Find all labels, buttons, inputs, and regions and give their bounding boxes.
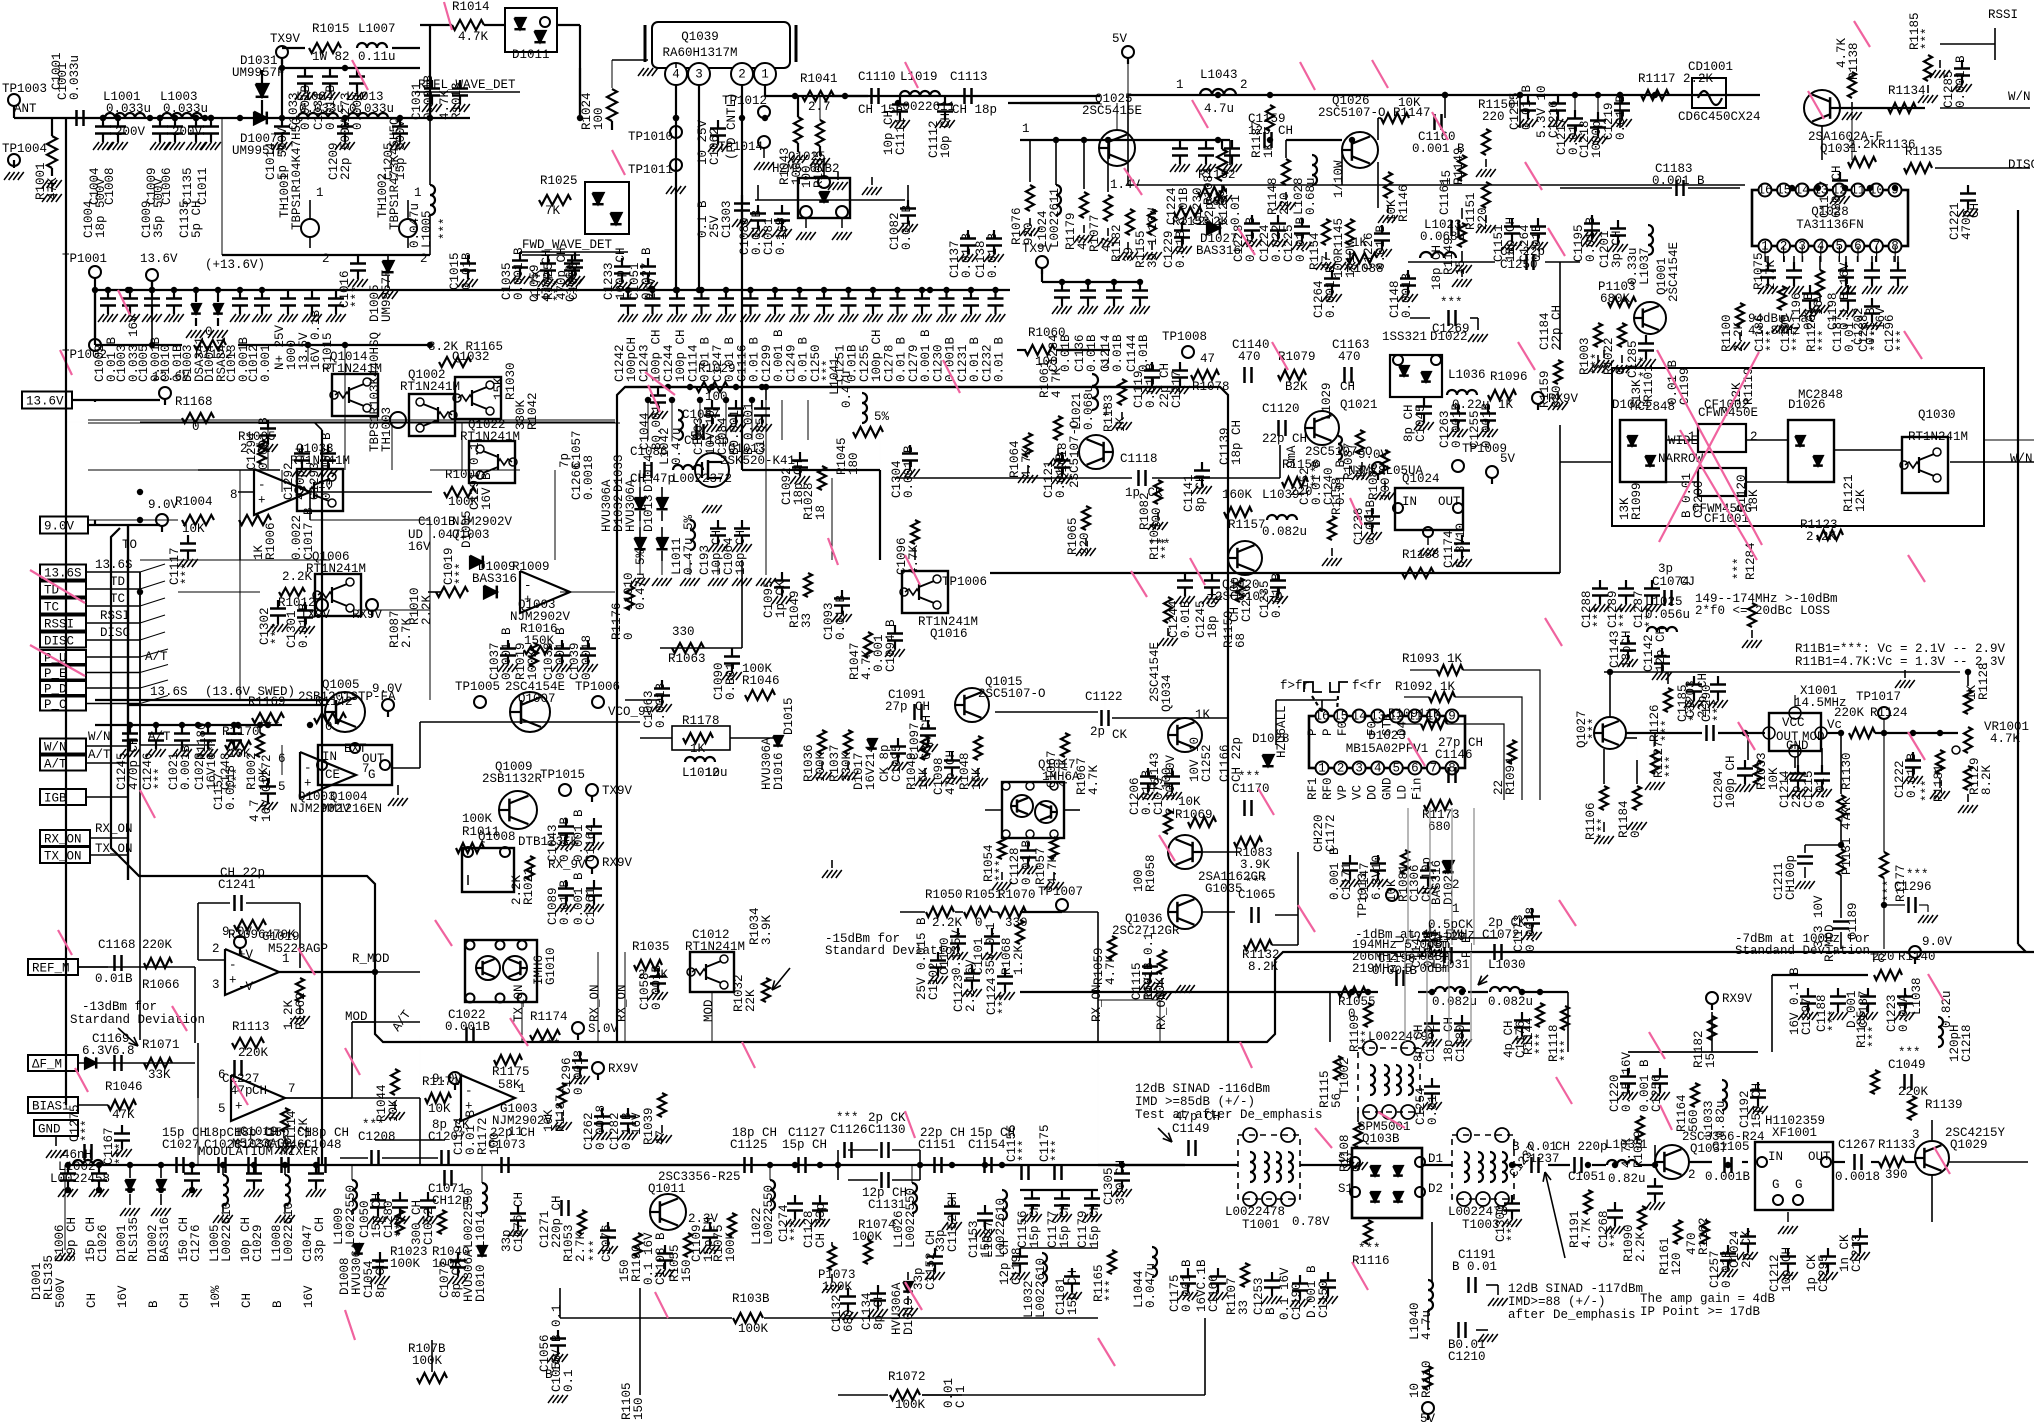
svg-text:220K: 220K — [142, 938, 173, 952]
svg-text:13.6S: 13.6S — [44, 567, 82, 581]
svg-text:R11B1=***: Vc = 2.1V -- 2.9V: R11B1=***: Vc = 2.1V -- 2.9V — [1795, 642, 2006, 656]
svg-text:DO: DO — [1366, 785, 1380, 800]
svg-text:0.47u 5%: 0.47u 5% — [634, 549, 648, 610]
svg-text:HZU6ALL: HZU6ALL — [1275, 705, 1289, 758]
svg-text:C1303: C1303 — [720, 200, 734, 238]
svg-text:16: 16 — [1757, 184, 1772, 198]
svg-text:***: *** — [1148, 538, 1171, 552]
svg-text:0.033u: 0.033u — [106, 102, 151, 116]
svg-text:C1011: C1011 — [196, 167, 210, 205]
svg-text:C1129: C1129 — [1428, 930, 1466, 944]
svg-text:-: - — [524, 579, 532, 593]
svg-text:0.82u: 0.82u — [1714, 1100, 1728, 1138]
svg-text:10K: 10K — [428, 1102, 451, 1116]
svg-text:1SS321: 1SS321 — [1382, 330, 1427, 344]
svg-text:680: 680 — [1428, 820, 1451, 834]
svg-text:0: 0 — [205, 325, 213, 339]
svg-text:R1035: R1035 — [632, 940, 670, 954]
svg-text:+: + — [229, 974, 237, 988]
svg-text:L1019: L1019 — [900, 70, 938, 84]
svg-text:***: *** — [1895, 329, 1909, 352]
svg-text:100K: 100K — [814, 751, 828, 782]
svg-text:W/N: W/N — [2010, 452, 2033, 466]
svg-text:2: 2 — [1240, 78, 1248, 92]
svg-text:100: 100 — [592, 107, 606, 130]
svg-text:15p CH: 15p CH — [1058, 1203, 1072, 1248]
svg-text:after De_emphasis: after De_emphasis — [1508, 1308, 1636, 1322]
svg-text:RSSI: RSSI — [44, 618, 74, 632]
svg-text:2SC5415E: 2SC5415E — [1082, 104, 1142, 118]
svg-text:H1102359: H1102359 — [1765, 1114, 1825, 1128]
svg-text:13.6S: 13.6S — [150, 685, 188, 699]
svg-text:2SB1132R: 2SB1132R — [482, 772, 543, 786]
svg-text:TP1004: TP1004 — [2, 142, 47, 156]
svg-text:100K: 100K — [412, 1354, 443, 1368]
svg-text:16V B: 16V B — [480, 472, 494, 510]
svg-text:***: *** — [1440, 296, 1463, 310]
svg-text:R1074: R1074 — [858, 1218, 896, 1232]
svg-text:13.6S: 13.6S — [95, 558, 133, 572]
svg-text:TP1014: TP1014 — [718, 140, 763, 154]
svg-text:C1213: C1213 — [1850, 1234, 1864, 1272]
svg-text:***: *** — [1506, 1219, 1520, 1242]
svg-text:5p 500V: 5p 500V — [276, 127, 290, 180]
svg-text:***: *** — [1592, 605, 1606, 628]
svg-text:***: *** — [438, 217, 452, 240]
svg-text:R1093 1K: R1093 1K — [1402, 652, 1463, 666]
svg-text:16V: 16V — [302, 1285, 316, 1308]
svg-text:BIAS1: BIAS1 — [32, 1100, 70, 1114]
svg-text:C1118: C1118 — [1120, 452, 1158, 466]
svg-text:D1015: D1015 — [782, 697, 796, 735]
svg-text:R1092 1K: R1092 1K — [1395, 680, 1456, 694]
svg-text:***: *** — [1618, 605, 1632, 628]
svg-text:220K: 220K — [1898, 1085, 1929, 1099]
svg-text:7: 7 — [1430, 762, 1438, 776]
svg-text:12dB SINAD -116dBm: 12dB SINAD -116dBm — [1135, 1082, 1270, 1096]
svg-text:0.01 B: 0.01 B — [1905, 752, 1919, 798]
svg-text:C1026: C1026 — [96, 1224, 110, 1262]
svg-text:Q1007: Q1007 — [518, 692, 556, 706]
svg-text:10u: 10u — [705, 766, 728, 780]
svg-text:1: 1 — [316, 186, 324, 200]
svg-text:RLS135: RLS135 — [127, 1217, 141, 1262]
svg-text:13.6V: 13.6V — [152, 370, 190, 384]
svg-text:MOD: MOD — [702, 999, 716, 1022]
svg-text:RF1: RF1 — [1306, 777, 1320, 800]
svg-text:C1200: C1200 — [1692, 480, 1706, 518]
svg-text:0.056u: 0.056u — [1645, 608, 1690, 622]
svg-text:0: 0 — [1629, 830, 1643, 838]
svg-text:TC: TC — [110, 592, 125, 606]
svg-text:Q1029: Q1029 — [1950, 1138, 1988, 1152]
svg-text:C1256: C1256 — [1650, 1074, 1664, 1112]
svg-text:1p CK: 1p CK — [1125, 486, 1163, 500]
svg-text:0.082u: 0.082u — [1432, 995, 1477, 1009]
svg-text:16V: 16V — [408, 540, 431, 554]
svg-text:7: 7 — [288, 1082, 296, 1096]
svg-text:A/T: A/T — [88, 748, 111, 762]
svg-text:L1025: L1025 — [1645, 595, 1683, 609]
svg-text:CH: CH — [85, 1293, 99, 1308]
svg-text:13.6V: 13.6V — [140, 252, 178, 266]
svg-text:27p CH: 27p CH — [1438, 736, 1483, 750]
svg-text:R1156: R1156 — [1282, 458, 1320, 472]
svg-text:12K: 12K — [1854, 489, 1868, 512]
svg-text:C1208: C1208 — [358, 1130, 396, 1144]
svg-text:CH100p: CH100p — [1784, 855, 1798, 900]
svg-text:0.082u: 0.082u — [1488, 995, 1533, 1009]
svg-text:B: B — [545, 1368, 553, 1382]
svg-text:39p CH: 39p CH — [65, 1217, 79, 1262]
svg-text:R1030: R1030 — [504, 362, 518, 400]
svg-text:1K: 1K — [1262, 142, 1276, 158]
svg-text:1K: 1K — [1195, 708, 1211, 722]
svg-text:-: - — [304, 761, 312, 775]
svg-text:220: 220 — [1476, 207, 1490, 230]
svg-text:B2K: B2K — [1285, 380, 1308, 394]
svg-text:C1218: C1218 — [1960, 1024, 1974, 1062]
svg-text:11: 11 — [1850, 184, 1865, 198]
svg-text:C1241: C1241 — [218, 878, 256, 892]
svg-text:R1004: R1004 — [175, 495, 213, 509]
svg-text:TC: TC — [44, 601, 59, 615]
svg-text:DISC: DISC — [2008, 158, 2034, 172]
svg-text:RT1N241M: RT1N241M — [460, 430, 520, 444]
svg-text:***: *** — [350, 285, 364, 308]
svg-text:15p CH: 15p CH — [1066, 1270, 1080, 1315]
svg-text:Q1028: Q1028 — [1811, 205, 1849, 219]
svg-text:TX_ON: TX_ON — [95, 842, 133, 856]
svg-text:RX9V: RX9V — [1722, 992, 1753, 1006]
svg-text:0.033u: 0.033u — [68, 55, 82, 100]
svg-text:16V C1272: 16V C1272 — [260, 754, 274, 822]
svg-text:***: *** — [1906, 868, 1929, 882]
svg-text:R1050: R1050 — [925, 888, 963, 902]
svg-text:C1087: C1087 — [682, 408, 720, 422]
svg-text:2.2K: 2.2K — [932, 916, 963, 930]
svg-text:RX9V: RX9V — [602, 856, 633, 870]
svg-text:Standand Deviation: Standand Deviation — [1735, 944, 1870, 958]
svg-text:REFL_WAVE_DET: REFL_WAVE_DET — [418, 78, 516, 92]
svg-text:8p CH: 8p CH — [872, 1292, 886, 1330]
svg-text:100: 100 — [1160, 767, 1174, 790]
svg-text:TO: TO — [122, 538, 137, 552]
svg-text:3.9K: 3.9K — [760, 914, 774, 945]
svg-text:TBPS1R104K47H5Q: TBPS1R104K47H5Q — [290, 117, 304, 230]
svg-text:2SC4215Y: 2SC4215Y — [1945, 1126, 2006, 1140]
svg-text:TP1006: TP1006 — [942, 575, 987, 589]
svg-text:***: *** — [1869, 329, 1883, 352]
svg-text:RT1N241M: RT1N241M — [685, 940, 745, 954]
svg-text:TP1006: TP1006 — [575, 680, 620, 694]
svg-text:R1170: R1170 — [222, 725, 260, 739]
svg-text:2: 2 — [1337, 762, 1345, 776]
svg-text:R1174: R1174 — [530, 1010, 568, 1024]
svg-text:L1005: L1005 — [420, 210, 434, 248]
svg-text:C1149: C1149 — [1172, 1122, 1210, 1136]
svg-text:6: 6 — [1411, 762, 1419, 776]
svg-text:Q1011: Q1011 — [648, 1182, 686, 1196]
svg-text:TD: TD — [110, 575, 125, 589]
svg-text:UM9957F: UM9957F — [380, 269, 394, 322]
svg-text:RT1N241M: RT1N241M — [290, 454, 350, 468]
svg-text:18: 18 — [814, 505, 828, 520]
svg-text:68: 68 — [1234, 633, 1248, 648]
svg-text:R1171: R1171 — [422, 1075, 460, 1089]
svg-text:R1066: R1066 — [142, 978, 180, 992]
svg-text:Q1021: Q1021 — [1340, 398, 1378, 412]
svg-text:HVU306A: HVU306A — [600, 479, 614, 532]
svg-text:RA60H1317M: RA60H1317M — [662, 46, 737, 60]
svg-text:R1135: R1135 — [1905, 145, 1943, 159]
svg-text:2.2K: 2.2K — [1634, 1231, 1648, 1262]
svg-text:2SC3356-R25: 2SC3356-R25 — [658, 1170, 741, 1184]
svg-text:RT1N241M: RT1N241M — [306, 562, 366, 576]
svg-text:0.0018: 0.0018 — [1835, 1170, 1880, 1184]
svg-text:0.068u: 0.068u — [1082, 385, 1096, 430]
svg-text:TX9V: TX9V — [602, 784, 633, 798]
svg-text:The amp gain = 4dB: The amp gain = 4dB — [1640, 1292, 1776, 1306]
svg-text:220K: 220K — [1834, 706, 1865, 720]
svg-text:1W 82: 1W 82 — [312, 50, 350, 64]
svg-text:1K: 1K — [690, 742, 706, 756]
svg-text:GND: GND — [1381, 777, 1395, 800]
svg-text:TP1001: TP1001 — [62, 252, 107, 266]
svg-text:2: 2 — [212, 942, 220, 956]
svg-text:REF_M: REF_M — [32, 962, 70, 976]
svg-text:2.2K: 2.2K — [1732, 321, 1746, 352]
svg-text:15p CH: 15p CH — [1088, 1203, 1102, 1248]
svg-text:R1146: R1146 — [1397, 184, 1411, 222]
svg-text:D1016: D1016 — [772, 752, 786, 790]
svg-text:L0022550: L0022550 — [344, 1185, 358, 1245]
svg-text:R_MOD: R_MOD — [1823, 924, 1837, 962]
svg-text:560: 560 — [1687, 1109, 1701, 1132]
svg-text:9: 9 — [1448, 710, 1456, 724]
svg-text:3: 3 — [695, 68, 703, 82]
svg-text:TP1017: TP1017 — [1856, 690, 1901, 704]
svg-text:***: *** — [1791, 329, 1805, 352]
svg-text:14: 14 — [1795, 184, 1810, 198]
svg-text:C1168: C1168 — [98, 938, 136, 952]
svg-text:L1037: L1037 — [1638, 247, 1652, 285]
svg-text:1: 1 — [518, 1082, 526, 1096]
svg-text:C1127: C1127 — [788, 1126, 826, 1140]
svg-text:C1052: C1052 — [422, 1207, 436, 1245]
svg-text:Vc: Vc — [1827, 718, 1842, 732]
svg-text:3: 3 — [1355, 762, 1363, 776]
svg-text:18p CH: 18p CH — [1230, 420, 1244, 465]
svg-text:HZM5.6NB2: HZM5.6NB2 — [772, 162, 840, 176]
svg-text:***: *** — [1660, 719, 1674, 742]
svg-text:C1146: C1146 — [1435, 748, 1473, 762]
svg-text:5: 5 — [1393, 762, 1401, 776]
svg-text:RX_ON: RX_ON — [95, 822, 133, 836]
svg-text:Stardand Deviation: Stardand Deviation — [70, 1013, 205, 1027]
svg-text:4.7K: 4.7K — [458, 30, 489, 44]
svg-text:2: 2 — [322, 252, 330, 266]
svg-text:D1022: D1022 — [1430, 330, 1468, 344]
svg-text:R1099: R1099 — [1630, 482, 1644, 520]
svg-text:***: *** — [1245, 876, 1268, 890]
svg-text:***: *** — [1559, 1039, 1573, 1062]
svg-text:C1267: C1267 — [1838, 1138, 1876, 1152]
svg-text:0.001B: 0.001B — [1372, 964, 1418, 978]
svg-text:0.0018: 0.0018 — [582, 455, 596, 500]
svg-text:8p CK: 8p CK — [432, 1118, 470, 1132]
svg-text:TBPS1R473K45H5Q: TBPS1R473K45H5Q — [388, 117, 402, 230]
svg-text:CH 22p: CH 22p — [220, 866, 265, 880]
svg-text:1MH6A: 1MH6A — [1042, 770, 1080, 784]
svg-text:920: 920 — [1022, 222, 1036, 245]
svg-text:9.0V: 9.0V — [148, 498, 179, 512]
svg-text:R1134: R1134 — [1888, 84, 1926, 98]
svg-text:18p CH: 18p CH — [1206, 593, 1220, 638]
svg-text:C1252: C1252 — [1200, 744, 1214, 782]
svg-text:P_C: P_C — [44, 698, 67, 712]
svg-text:R1025: R1025 — [540, 174, 578, 188]
svg-text:CD1001: CD1001 — [1688, 60, 1733, 74]
svg-text:W/N: W/N — [2008, 90, 2031, 104]
svg-text:L1043: L1043 — [1200, 68, 1238, 82]
svg-text:C1110: C1110 — [858, 70, 896, 84]
svg-text:15p CH: 15p CH — [1028, 1203, 1042, 1248]
svg-text:CH: CH — [178, 1293, 192, 1308]
svg-text:L0022610: L0022610 — [1034, 1258, 1048, 1318]
svg-text:5V: 5V — [1500, 452, 1516, 466]
svg-text:RLS135: RLS135 — [42, 1255, 56, 1300]
svg-text:33: 33 — [1237, 1300, 1251, 1315]
svg-text:Q1032: Q1032 — [452, 350, 490, 364]
svg-text:RX_9V: RX_9V — [548, 858, 586, 872]
svg-text:R1088: R1088 — [1346, 262, 1384, 276]
svg-text:***: *** — [80, 1119, 94, 1142]
svg-text:-: - — [258, 478, 266, 492]
svg-text:CH 33p: CH 33p — [814, 1203, 828, 1248]
svg-text:1.2K: 1.2K — [1012, 944, 1026, 975]
svg-text:C1150: C1150 — [1317, 1280, 1331, 1318]
svg-text:R1060: R1060 — [1028, 326, 1066, 340]
svg-text:180: 180 — [847, 452, 861, 475]
svg-text:R1139: R1139 — [1925, 1098, 1963, 1112]
svg-text:8.2K: 8.2K — [1980, 764, 1994, 795]
svg-text:1: 1 — [1176, 78, 1184, 92]
svg-text:R1096: R1096 — [1490, 370, 1528, 384]
svg-text:0.01B: 0.01B — [1111, 334, 1125, 372]
svg-text:33: 33 — [800, 613, 814, 628]
svg-text:R1058: R1058 — [1144, 854, 1158, 892]
svg-text:16V: 16V — [116, 1285, 130, 1308]
svg-text:0.047u: 0.047u — [1144, 1263, 1158, 1308]
svg-text:RF0: RF0 — [1321, 777, 1335, 800]
svg-text:R1072: R1072 — [888, 1370, 926, 1384]
svg-text:4.7u: 4.7u — [1204, 102, 1234, 116]
svg-text:A/T: A/T — [44, 758, 67, 772]
svg-text:f<fr: f<fr — [1352, 679, 1382, 693]
svg-text:P1181: P1181 — [1932, 764, 1946, 802]
svg-text:0.001B: 0.001B — [1705, 1170, 1751, 1184]
svg-text:0.11u: 0.11u — [358, 50, 396, 64]
svg-text:C1207: C1207 — [428, 1130, 466, 1144]
svg-text:C1076 CH: C1076 CH — [512, 1192, 526, 1252]
svg-text:G1035: G1035 — [1205, 882, 1243, 896]
svg-text:L0022550: L0022550 — [762, 1185, 776, 1245]
svg-text:R11B1=4.7K:Vc = 1.3V -- 2.3V: R11B1=4.7K:Vc = 1.3V -- 2.3V — [1795, 655, 2006, 669]
svg-text:10K: 10K — [1178, 795, 1201, 809]
svg-text:C1029: C1029 — [251, 1224, 265, 1262]
svg-text:0.47u: 0.47u — [840, 370, 854, 408]
svg-text:D1013: D1013 — [642, 494, 656, 532]
svg-text:D4: D4 — [1395, 721, 1409, 736]
svg-text:***: *** — [994, 859, 1008, 882]
svg-text:100K: 100K — [895, 1398, 926, 1412]
svg-text:0.01 B: 0.01 B — [993, 336, 1007, 382]
svg-text:P: P — [1306, 728, 1320, 736]
svg-text:33p CH: 33p CH — [313, 1217, 327, 1262]
svg-text:22p CH: 22p CH — [490, 1126, 535, 1140]
svg-text:S.0V: S.0V — [588, 1022, 619, 1036]
svg-text:0.01: 0.01 — [1229, 195, 1243, 225]
svg-text:4.7K: 4.7K — [1990, 732, 2021, 746]
svg-text:9.0V: 9.0V — [372, 682, 403, 696]
svg-text:0.01: 0.01 — [1843, 322, 1857, 352]
svg-text:C1131: C1131 — [868, 1198, 906, 1212]
svg-text:2SC4154E: 2SC4154E — [1667, 242, 1681, 302]
svg-text:MC2848: MC2848 — [1798, 388, 1843, 402]
svg-text:2: 2 — [738, 68, 746, 82]
svg-text:10K: 10K — [182, 522, 205, 536]
svg-text:1: 1 — [761, 68, 769, 82]
svg-text:2p CK: 2p CK — [868, 1111, 906, 1125]
svg-text:CD6C450CX24: CD6C450CX24 — [1678, 110, 1761, 124]
svg-text:6.3V6.8: 6.3V6.8 — [82, 1044, 135, 1058]
svg-text:R1015: R1015 — [312, 22, 350, 36]
svg-text:8.2K: 8.2K — [1248, 960, 1279, 974]
svg-text:10K: 10K — [1398, 96, 1421, 110]
svg-text:R1046: R1046 — [105, 1080, 143, 1094]
svg-text:L0022610: L0022610 — [220, 1202, 234, 1262]
svg-text:R1175: R1175 — [492, 1065, 530, 1079]
svg-text:C1001: C1001 — [50, 52, 64, 90]
svg-text:1K: 1K — [1498, 398, 1514, 412]
svg-text:7K: 7K — [545, 204, 561, 218]
svg-text:100K: 100K — [738, 1322, 769, 1336]
svg-text:***: *** — [454, 562, 468, 585]
svg-text:220: 220 — [1482, 110, 1505, 124]
svg-text:D1010: D1010 — [474, 1264, 488, 1302]
svg-text:L0022479: L0022479 — [1368, 1030, 1428, 1044]
svg-text:ΔF_M: ΔF_M — [32, 1058, 62, 1072]
svg-text:R1014: R1014 — [452, 0, 490, 14]
svg-text:***: *** — [1898, 1046, 1921, 1060]
svg-text:TX_ON: TX_ON — [512, 984, 526, 1022]
svg-text:16V214: 16V214 — [864, 745, 878, 790]
svg-text:R1094: R1094 — [1504, 757, 1518, 795]
svg-text:4.7K: 4.7K — [1020, 447, 1034, 478]
svg-text:***: *** — [538, 1038, 561, 1052]
svg-text:2p CK: 2p CK — [1488, 916, 1526, 930]
svg-text:***: *** — [997, 992, 1011, 1015]
svg-text:C101B: C101B — [418, 515, 456, 529]
svg-text:0.001B: 0.001B — [1364, 499, 1378, 545]
svg-text:TP1011: TP1011 — [628, 163, 673, 177]
svg-text:3p: 3p — [1658, 562, 1673, 576]
svg-text:CH 18p: CH 18p — [952, 103, 997, 117]
svg-text:R10911K: R10911K — [1388, 707, 1441, 721]
svg-text:VCC: VCC — [1782, 716, 1805, 730]
svg-text:Q1008: Q1008 — [478, 830, 516, 844]
